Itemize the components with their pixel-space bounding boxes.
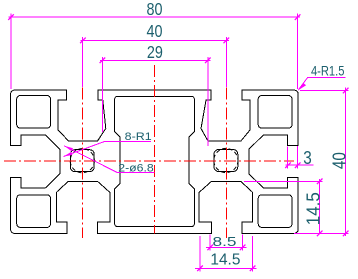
tick 3 left bbox=[285, 162, 291, 168]
dim 14.5 right line bbox=[319, 179, 321, 234]
core hole circle right (dashed) bbox=[214, 148, 238, 172]
center cavity bbox=[115, 96, 195, 226]
leader 2-o6.8 underline bbox=[64, 146, 154, 173]
dim 8.5 ext left bbox=[209, 235, 211, 251]
dim 40 ext left bbox=[82, 37, 84, 87]
dim 40 right ext top bbox=[300, 89, 349, 91]
profile outer outline bbox=[11, 90, 299, 233]
dim 40 right line bbox=[345, 88, 347, 237]
tick 8.5 left bbox=[207, 245, 213, 251]
dim 29 ext right bbox=[207, 57, 209, 146]
centerline vertical right core bbox=[225, 88, 227, 239]
svg-text:8-R1: 8-R1 bbox=[125, 131, 152, 143]
dim 40 top line bbox=[80, 39, 228, 41]
dim 80 line bbox=[9, 16, 301, 18]
dim 80 ext right bbox=[297, 14, 299, 89]
tick 40 left bbox=[80, 38, 86, 44]
corner square hole top-right bbox=[258, 96, 292, 129]
core hole circle left (dashed) bbox=[70, 149, 94, 173]
centerline horizontal bbox=[4, 160, 294, 162]
arrow 8-R1 left bbox=[64, 152, 73, 157]
tick 14.5R top bbox=[317, 179, 323, 185]
tick 14.5B left bbox=[197, 266, 203, 272]
dim 29 ext left bbox=[101, 57, 103, 132]
dim 14.5 bottom line bbox=[195, 267, 256, 269]
tick 40R top bbox=[343, 88, 349, 94]
dim 29 line bbox=[100, 59, 210, 61]
svg-text:14.5: 14.5 bbox=[302, 192, 323, 225]
tick 40 right bbox=[224, 38, 230, 44]
svg-text:2-ø6.8: 2-ø6.8 bbox=[118, 163, 154, 175]
dim 80 ext left bbox=[10, 14, 12, 89]
leader 8-R1 underline bbox=[64, 141, 151, 156]
core square right bbox=[214, 150, 238, 172]
dim 8.5 ext right bbox=[242, 235, 244, 251]
tick 14.5R bottom bbox=[317, 231, 323, 237]
svg-text:3: 3 bbox=[303, 147, 312, 168]
corner square hole bottom-left bbox=[17, 195, 51, 228]
dim 40 right ext bottom / 14.5 shared ext bbox=[294, 232, 349, 234]
svg-text:29: 29 bbox=[147, 42, 163, 62]
tick 8.5 right bbox=[240, 245, 246, 251]
dim 14.5 bottom ext right bbox=[252, 236, 254, 271]
svg-text:8.5: 8.5 bbox=[213, 234, 237, 249]
tick 80 left bbox=[8, 14, 14, 20]
tick 40R bottom bbox=[343, 231, 349, 237]
dim 14.5 right ext top bbox=[244, 180, 323, 182]
dim 14.5 bottom ext left bbox=[199, 236, 201, 271]
arrow 2-o6.8 left bbox=[64, 146, 73, 152]
svg-text:14.5: 14.5 bbox=[210, 251, 240, 268]
leader 4-R1.5 bbox=[298, 78, 345, 91]
svg-text:40: 40 bbox=[147, 21, 163, 41]
svg-text:80: 80 bbox=[147, 0, 163, 19]
dim 3 ext left bbox=[287, 147, 289, 169]
tick 80 right bbox=[295, 14, 301, 20]
centerline vertical middle bbox=[153, 65, 155, 234]
dim 3 line bbox=[285, 164, 313, 166]
svg-text:4-R1.5: 4-R1.5 bbox=[311, 64, 345, 79]
corner square hole top-left bbox=[17, 96, 51, 129]
dim 3 ext bbox=[297, 146, 299, 169]
tick 3 right bbox=[295, 162, 301, 168]
dim 8.5 line bbox=[206, 246, 247, 248]
core square left bbox=[70, 150, 94, 172]
tick 14.5B right bbox=[250, 266, 256, 272]
tick 29 left bbox=[100, 58, 106, 64]
svg-text:40: 40 bbox=[329, 152, 349, 169]
tick 29 right bbox=[205, 58, 211, 64]
dim 40 ext right bbox=[225, 37, 227, 87]
corner square hole bottom-right bbox=[258, 195, 292, 228]
arrow 4-R1.5 bbox=[298, 83, 306, 90]
centerline vertical left core bbox=[82, 88, 84, 239]
